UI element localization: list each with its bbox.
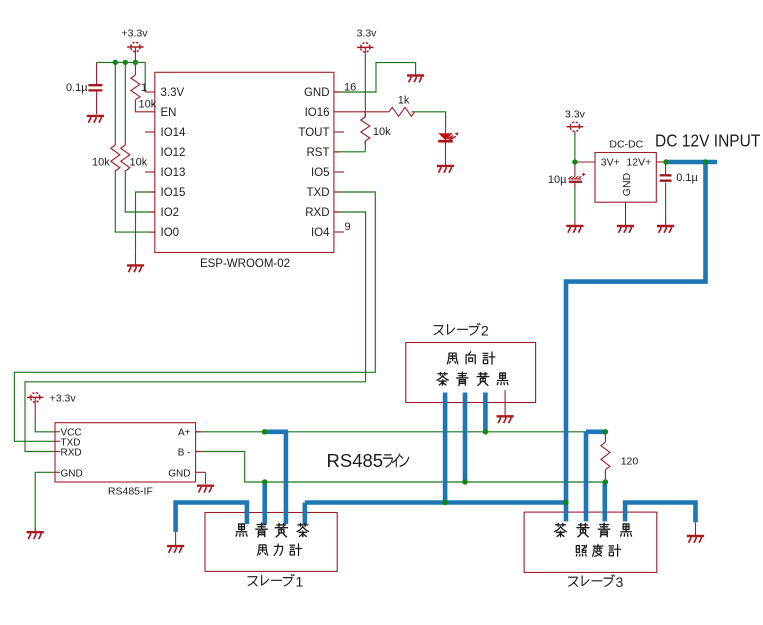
label DC-DC GND rotated [621, 172, 633, 196]
capacitor C2 10u polarized [569, 162, 586, 187]
ground G3 [407, 76, 424, 83]
net A+ line [196, 431, 586, 433]
junction 3.3V rail R2 [113, 60, 118, 65]
label slave1 pins [236, 523, 309, 537]
label slave1 [248, 573, 304, 589]
label RS485 line [327, 450, 409, 471]
capacitor C1 0.1u [88, 62, 102, 114]
svg-text:3.3V: 3.3V [161, 87, 185, 99]
svg-text:0.1µ: 0.1µ [676, 172, 698, 184]
wire IO15 to ground [136, 192, 155, 252]
pin stub IO0 [150, 231, 155, 233]
junction A+ R6 [603, 429, 608, 434]
ground G4 [437, 166, 454, 173]
svg-text:RS485-IF: RS485-IF [108, 486, 153, 498]
svg-text:IO2: IO2 [161, 207, 180, 219]
ground G11 [167, 546, 184, 553]
pin stub A+ [196, 431, 201, 433]
svg-text:DC-DC: DC-DC [609, 139, 643, 151]
svg-text:RXD: RXD [305, 207, 329, 219]
box slave1 [205, 513, 337, 572]
svg-text:RST: RST [307, 147, 330, 159]
wire slave2 blue drop [463, 393, 468, 483]
pin stub B- [196, 451, 201, 453]
svg-text:+3.3v: +3.3v [50, 393, 77, 405]
wire R2 bottom to IO0 [115, 175, 155, 232]
label DC 12V INPUT [655, 131, 761, 151]
net B- line [196, 452, 606, 483]
svg-text:GND: GND [304, 87, 330, 99]
power +3.3v RS485 [27, 393, 43, 419]
svg-text:16: 16 [344, 82, 356, 94]
junction B- R6 [603, 479, 608, 484]
label slave3 pins [555, 523, 632, 537]
label slave2 [434, 322, 489, 338]
box slave3 [524, 512, 657, 572]
pin stub TOUT [334, 131, 344, 133]
pin stub IO5 [334, 171, 344, 173]
ground G9 [197, 486, 214, 493]
svg-text:2: 2 [481, 322, 489, 338]
svg-text:B -: B - [178, 448, 191, 459]
label 3.3v DC [565, 109, 586, 121]
svg-text:3.3v: 3.3v [357, 27, 378, 39]
wire R4 bottom to RST [334, 141, 365, 152]
label 1 pin number [141, 82, 147, 94]
label 3.3v right [357, 27, 378, 39]
label DC-DC [609, 139, 643, 151]
svg-text:3V+: 3V+ [601, 156, 620, 168]
label 10k R1 [139, 99, 157, 111]
pin stub RST [334, 151, 340, 153]
ground G7 [657, 215, 674, 233]
junction 3V+ node [572, 159, 577, 164]
label 16 pin number [344, 82, 356, 94]
svg-text:9: 9 [345, 221, 351, 233]
wire slave1 blue drop [262, 482, 267, 524]
svg-text:RXD: RXD [61, 448, 82, 459]
power 3.3v right [357, 43, 373, 53]
capacitor C3 0.1u [660, 162, 672, 181]
pin stub IO14 [145, 131, 155, 133]
wire RS485-IF GND right drop [205, 472, 207, 484]
box slave2 [406, 343, 536, 403]
wire A+ end to slave3 yellow [586, 432, 605, 522]
label +3.3v top-left [122, 28, 149, 40]
wire 3.3v to R4 [364, 52, 366, 117]
svg-text:GND: GND [168, 468, 190, 479]
svg-text:IO13: IO13 [161, 167, 186, 179]
svg-text:1k: 1k [398, 95, 410, 107]
svg-text:1: 1 [141, 82, 147, 94]
label 12V+ [626, 156, 651, 168]
svg-text:+3.3v: +3.3v [122, 28, 149, 40]
pin names U2 left [61, 427, 83, 479]
pin stub slave2 black [504, 390, 506, 415]
svg-text:GND: GND [61, 468, 83, 479]
wire R3 top lead [124, 62, 126, 141]
svg-text:IO14: IO14 [161, 127, 187, 139]
label 10u C2 [548, 174, 567, 186]
svg-text:RS485: RS485 [327, 450, 384, 471]
ground G6 [617, 226, 634, 233]
label 0.1u C1 [66, 82, 88, 94]
svg-text:10µ: 10µ [548, 174, 567, 186]
svg-text:TOUT: TOUT [298, 127, 329, 139]
pin stub RXD [334, 211, 340, 213]
svg-text:EN: EN [161, 107, 177, 119]
wire 3.3V rail top-left [97, 62, 146, 92]
pin stub VCC [55, 431, 60, 433]
wire TXD to RS485-IF [14, 192, 375, 441]
wire RXD to RS485-IF [25, 212, 366, 452]
wire C3 to ground [665, 183, 667, 216]
wire C2 to ground [574, 186, 576, 219]
IC U3 DC-DC box [595, 153, 656, 203]
pin stub GND16 [334, 91, 340, 93]
IC U2 RS485-IF box [55, 423, 196, 482]
svg-text:10k: 10k [139, 99, 157, 111]
ground G8 [497, 416, 514, 423]
junction A+ slave1 [262, 429, 267, 434]
ground G1 [87, 116, 104, 123]
pin stub U2 GND [55, 471, 60, 473]
label 9 pin number [345, 221, 351, 233]
label +3.3v RS485 [50, 393, 77, 405]
junction 12V bus slave3 [563, 500, 568, 505]
wire 12V bus [305, 503, 566, 525]
resistor R6 120 [601, 432, 610, 482]
pin stub U2 TXD [55, 440, 60, 442]
svg-text:DC 12V INPUT: DC 12V INPUT [655, 131, 761, 151]
wire IO16 to 1k [334, 111, 389, 113]
pin names U2 right [168, 427, 190, 479]
junction A+ slave2 [483, 429, 488, 434]
svg-text:10k: 10k [130, 157, 148, 169]
power +3.3v top-left [127, 42, 143, 62]
power 3.3v DC area [567, 122, 583, 135]
label illuminometer [576, 544, 620, 556]
wire VCC to +3.3v [35, 418, 55, 432]
resistor R5 1k [389, 107, 415, 116]
svg-text:12V+: 12V+ [626, 156, 651, 168]
wire R2 top lead [114, 62, 116, 141]
resistor R4 10k [361, 113, 370, 145]
svg-text:3.3v: 3.3v [565, 109, 586, 121]
wire RS485-IF GND left to ground [35, 472, 55, 530]
label 0.1u C3 [676, 172, 698, 184]
svg-text:3: 3 [616, 574, 624, 590]
ground G10 [27, 528, 44, 539]
pin stub IO2 [150, 211, 155, 213]
svg-text:IO0: IO0 [161, 227, 180, 239]
svg-text:IO15: IO15 [161, 187, 186, 199]
wire A+ jog to slave1 yellow [264, 432, 286, 524]
label 1k R5 [398, 95, 410, 107]
IC U1 ESP-WROOM-02 box [155, 72, 334, 252]
label 3V+ [601, 156, 620, 168]
wire slave2 brown drop [443, 393, 448, 503]
pin stub RS485 GND right [196, 471, 206, 473]
pin stub 3.3V [145, 91, 155, 93]
label 120 R6 [621, 455, 639, 467]
label 10k R3 [130, 157, 148, 169]
label 10k R4 [373, 126, 391, 138]
wire 12V blue from DC-DC [566, 162, 717, 521]
svg-text:ESP-WROOM-02: ESP-WROOM-02 [200, 258, 290, 270]
wire slave3 blue drop [602, 482, 607, 521]
wire R3 bottom to IO2 [125, 175, 155, 212]
label slave2 pins [437, 372, 508, 385]
pin stub IO15 [150, 191, 155, 193]
svg-text:IO4: IO4 [311, 227, 330, 239]
pin stub U2 RXD [55, 451, 60, 453]
svg-text:1: 1 [296, 573, 304, 589]
svg-text:A+: A+ [178, 427, 191, 438]
label 10k R2 [92, 157, 110, 169]
junction 12V bus slave2 [442, 500, 447, 505]
svg-text:TXD: TXD [307, 187, 330, 199]
ground G2 [127, 252, 144, 272]
label wind vane [447, 352, 495, 364]
label RS485-IF [108, 486, 153, 498]
svg-text:IO12: IO12 [161, 147, 186, 159]
wire slave1 black to ground [176, 503, 247, 546]
svg-text:10k: 10k [92, 157, 110, 169]
wire slave2 yellow drop [483, 393, 488, 433]
label ESP-WROOM-02 [200, 258, 290, 270]
label slave3 [568, 574, 623, 590]
pin stub IO13 [145, 171, 155, 173]
svg-text:120: 120 [621, 455, 639, 467]
junction 3.3V rail R3 [123, 60, 128, 65]
pin stub TXD [334, 191, 340, 193]
pin stub 12V+ [656, 161, 666, 163]
pin stub DC-DC GND [625, 202, 627, 225]
pin stub 3V+ [575, 161, 595, 163]
wire 1k to LED [412, 112, 446, 124]
svg-text:GND: GND [621, 172, 633, 196]
svg-text:10k: 10k [373, 126, 391, 138]
wire slave3 black to ground [625, 503, 695, 536]
LED1 [438, 123, 458, 165]
junction B- slave1 [262, 479, 267, 484]
svg-text:IO16: IO16 [305, 107, 330, 119]
junction B- slave2 [462, 479, 467, 484]
ground G12 [687, 536, 704, 543]
wire GND pin 16 to ground [334, 63, 416, 92]
ground G5 [566, 219, 583, 233]
svg-text:IO5: IO5 [311, 167, 330, 179]
svg-text:0.1µ: 0.1µ [66, 82, 88, 94]
junction 3.3V rail supply [133, 60, 138, 65]
wire 3.3v to DC-DC [574, 134, 576, 162]
pin stub IO4 [334, 231, 344, 233]
label anemometer [257, 544, 301, 556]
pin names U1 left [161, 87, 187, 239]
resistor R1 10k [131, 62, 155, 111]
junction 12V+ C3 [663, 159, 668, 164]
pin names U1 right [298, 87, 330, 239]
junction 12V+ drop [703, 159, 708, 164]
resistor R2 10k [111, 141, 120, 175]
resistor R3 10k [121, 141, 130, 175]
